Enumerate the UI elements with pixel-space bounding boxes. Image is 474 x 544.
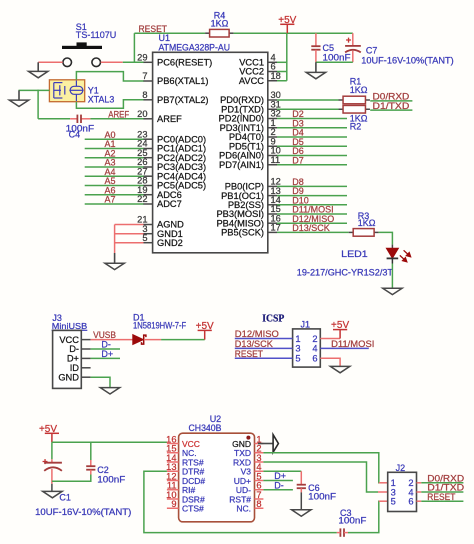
- svg-text:1KΩ: 1KΩ: [211, 19, 229, 29]
- U1 pin 32 PD2(IND0): [268, 118, 277, 120]
- wire R3 to LED: [379, 232, 393, 244]
- J3 pin ID: [81, 367, 90, 369]
- svg-text:J2: J2: [396, 463, 406, 473]
- svg-text:PB7(XTAL2): PB7(XTAL2): [157, 95, 209, 105]
- connector J3 body: [53, 330, 82, 388]
- wire net D1/TXD (J2): [417, 491, 422, 493]
- resistor R4 body: [205, 32, 210, 34]
- svg-text:PD7(AIN1): PD7(AIN1): [219, 160, 264, 170]
- svg-text:CTS#: CTS#: [182, 504, 204, 514]
- svg-text:100nF: 100nF: [308, 491, 337, 501]
- U2 pin 11 RI#: [167, 489, 179, 491]
- wire net D4: [277, 136, 347, 138]
- U1 pin 16 PB4(MISO): [268, 222, 277, 224]
- wire RESET to R4: [134, 32, 205, 34]
- U1 pin 5 GND2: [143, 242, 153, 244]
- wire net D3: [277, 127, 347, 129]
- wire GND bus GND2: [115, 242, 144, 244]
- U2 pin 9 CTS#: [167, 507, 179, 509]
- U1 pin 10 PD6(AIN0): [268, 155, 277, 157]
- wire analog net A7: [85, 203, 144, 205]
- J3 pin D+: [81, 357, 90, 359]
- svg-text:MiniUSB: MiniUSB: [52, 321, 88, 331]
- svg-text:+: +: [42, 456, 48, 467]
- wire net RESET to J1: [235, 357, 293, 359]
- U2 pin 7 RST#: [255, 498, 264, 500]
- wire GND bus GND1: [115, 233, 144, 235]
- ground pin U1 GND: [114, 253, 116, 263]
- svg-text:PB6(XTAL1): PB6(XTAL1): [157, 76, 209, 86]
- ground G5 (LED1): [383, 288, 402, 294]
- svg-text:17: 17: [271, 223, 281, 233]
- U2 pin 5 UD+: [255, 480, 264, 482]
- wire C5/C7 ground link: [316, 61, 353, 63]
- wire AREF branch vertical: [37, 90, 39, 119]
- wire net D12/MISO: [277, 222, 347, 224]
- wire net D5: [277, 145, 347, 147]
- svg-text:D-: D-: [274, 481, 284, 491]
- wire net D7: [277, 164, 347, 166]
- U1 pin 17 PB5(SCK): [268, 231, 277, 233]
- capacitor C3 plates: [339, 528, 341, 536]
- U1 pin 15 PB3(MOSI): [268, 213, 277, 215]
- wire GND bus vertical: [114, 225, 116, 254]
- wire net RESET (J2): [417, 500, 422, 502]
- wire net D0/RXD (J2): [417, 482, 422, 484]
- svg-text:PC6(RESET): PC6(RESET): [157, 58, 212, 68]
- wire PD0 to R1: [277, 99, 339, 101]
- svg-text:100nF: 100nF: [338, 515, 367, 525]
- wire U2 V3 to C6: [263, 470, 301, 472]
- J3 pin D-: [81, 348, 90, 350]
- pushbutton S1 right contact: [92, 58, 101, 67]
- svg-text:RESET: RESET: [427, 492, 456, 502]
- svg-text:VUSB: VUSB: [93, 330, 116, 340]
- svg-text:C4: C4: [69, 130, 81, 140]
- svg-text:ATMEGA328P-AU: ATMEGA328P-AU: [159, 42, 231, 52]
- pushbutton S1 actuator bar: [62, 46, 102, 49]
- connector J2 body: [388, 472, 417, 511]
- svg-text:6: 6: [312, 354, 317, 364]
- U1 pin 31 PD1(TXD): [268, 108, 277, 110]
- wire PD1 to R2: [277, 108, 339, 110]
- svg-text:J1: J1: [301, 319, 311, 329]
- svg-text:10UF-16V-10%(TANT): 10UF-16V-10%(TANT): [361, 56, 453, 66]
- ground pin crystal: [18, 90, 20, 100]
- ground pin under S1: [37, 62, 39, 71]
- U1 pin 30 PD0(RXD): [268, 99, 277, 101]
- svg-text:D12/MISO: D12/MISO: [235, 329, 279, 339]
- wire GND bus AGND: [115, 224, 144, 226]
- U1 pin 24 PC1(ADC1): [143, 148, 153, 150]
- svg-text:GND2: GND2: [157, 238, 183, 248]
- wire analog net A5: [85, 184, 144, 186]
- wire analog net A6: [85, 194, 144, 196]
- U2 GND net port arrow: [258, 443, 273, 445]
- U1 pin 13 PB1(OC1): [268, 195, 277, 197]
- svg-text:7: 7: [142, 71, 147, 81]
- S1 right pin wire: [101, 61, 123, 63]
- crystal Y1 glyph: [54, 81, 84, 102]
- C3 pins: [337, 532, 341, 534]
- wire net D- from J3: [91, 348, 120, 350]
- U2 pin 3 RXD: [255, 461, 264, 463]
- wire VCC drop to U1 power pins: [286, 33, 288, 81]
- svg-text:1KΩ: 1KΩ: [350, 85, 368, 95]
- U1 pin 14 PB2(SS): [268, 204, 277, 206]
- svg-text:PB5(SCK): PB5(SCK): [221, 228, 264, 238]
- U2 pin 16 VCC: [167, 443, 179, 445]
- wire J1 pin2 to +5V: [320, 338, 340, 340]
- U1 pin 4 VCC1: [268, 61, 277, 63]
- svg-text:AREF: AREF: [108, 110, 129, 120]
- svg-text:10UF-16V-10%(TANT): 10UF-16V-10%(TANT): [35, 507, 131, 517]
- J3 pin VCC: [81, 339, 90, 341]
- wire C2 bottom to C1: [90, 470, 92, 475]
- svg-text:C1: C1: [59, 493, 71, 503]
- U1 pin 22 ADC7: [143, 203, 153, 205]
- wire J1 pin6 to ground: [320, 358, 340, 366]
- svg-text:D13/SCK: D13/SCK: [292, 223, 330, 233]
- svg-text:22: 22: [137, 194, 147, 204]
- wire net D- (U2): [263, 489, 293, 491]
- U1 pin 12 PB0(ICP): [268, 185, 277, 187]
- wire crystal bottom loop to XTAL2: [76, 100, 143, 109]
- svg-text:RESET: RESET: [235, 349, 264, 359]
- U1 pin 27 PC4(ADC4): [143, 175, 153, 177]
- wire net D12/MISO to J1: [235, 338, 293, 340]
- wire net D9: [277, 195, 347, 197]
- U2 pin 2 TXD: [255, 452, 264, 454]
- svg-text:5: 5: [391, 497, 396, 507]
- U1 pin 2 PD4(T0): [268, 136, 277, 138]
- svg-text:CH340B: CH340B: [189, 423, 222, 433]
- svg-text:AVCC: AVCC: [239, 76, 264, 86]
- U2 pin 4 V3: [255, 470, 264, 472]
- svg-text:D7: D7: [292, 155, 304, 165]
- svg-text:11: 11: [271, 155, 281, 165]
- J2 left pin stubs: [379, 482, 388, 484]
- U1 pin 6 VCC2: [268, 71, 277, 73]
- svg-text:20: 20: [137, 109, 147, 119]
- capacitor C6 plates: [297, 484, 306, 486]
- LED1 light arrows: [400, 250, 411, 261]
- ground pin C5: [315, 62, 317, 72]
- wire +5V to U2 VCC: [52, 441, 167, 443]
- U2 pin 6 UD-: [255, 489, 264, 491]
- LED1 cathode pin and wire to ground: [391, 258, 393, 263]
- wire analog net A3: [85, 166, 144, 168]
- U1 pin 11 PD7(AIN1): [268, 164, 277, 166]
- wire net D8: [277, 185, 347, 187]
- wire C5 top stub: [315, 33, 317, 46]
- svg-text:19-217/GHC-YR1S2/3T: 19-217/GHC-YR1S2/3T: [297, 267, 394, 277]
- LED1 diode triangle: [386, 248, 398, 258]
- U2 pin 13 DTR#: [167, 470, 179, 472]
- U1 pin 29 PC6(RESET): [143, 61, 153, 63]
- wire net D11/MOSI: [277, 213, 347, 215]
- U2 pin 14 RTS#: [167, 461, 179, 463]
- U1 pin 1 PD3(INT1): [268, 127, 277, 129]
- wire net D0/RXD: [370, 100, 412, 102]
- svg-text:29: 29: [137, 53, 147, 63]
- wire analog net A0: [85, 138, 144, 140]
- U2 pin 1 GND: [255, 443, 264, 445]
- U1 pin 7 PB6(XTAL1): [143, 80, 153, 82]
- svg-text:ADC7: ADC7: [157, 199, 182, 209]
- wire C6 bottom to ground: [300, 488, 302, 492]
- wire net D11/MOSI from J1 pin4: [320, 347, 369, 349]
- ground G8 (C1): [43, 491, 62, 497]
- svg-text:8: 8: [142, 90, 147, 100]
- pushbutton S1 left contact: [63, 58, 72, 67]
- capacitor C4 pins: [70, 118, 77, 120]
- U1 pin 20 AREF: [143, 118, 153, 120]
- wire +5V rail top: [234, 32, 353, 34]
- wire net D10: [277, 204, 347, 206]
- resistor R3 body: [349, 231, 354, 233]
- svg-text:2: 2: [312, 334, 317, 344]
- svg-text:TS-1107U: TS-1107U: [76, 30, 117, 40]
- wire net D1/TXD: [370, 109, 412, 111]
- U1 pin 26 PC3(ADC3): [143, 166, 153, 168]
- svg-text:LED1: LED1: [341, 249, 368, 259]
- U1 pin 3 GND1: [143, 233, 153, 235]
- LED1 anode pin: [391, 245, 393, 249]
- wire net D6: [277, 155, 347, 157]
- wire U2 RXD to J2 pin3: [263, 462, 378, 492]
- svg-text:C7: C7: [366, 45, 378, 55]
- U1 pin 21 AGND: [143, 224, 153, 226]
- ground G3 (U1): [105, 263, 124, 269]
- IC U1 ATMEGA328P-AU body: [153, 52, 268, 253]
- wire D1 cathode to +5V: [144, 339, 161, 341]
- svg-text:D1/TXD: D1/TXD: [373, 101, 410, 111]
- crystal Y1 XTAL3 body: [49, 80, 84, 102]
- svg-text:8: 8: [256, 499, 261, 509]
- wire crystal top loop to XTAL1: [76, 72, 143, 81]
- svg-text:3: 3: [295, 344, 300, 354]
- wire net D13/SCK to R3: [277, 231, 349, 233]
- svg-text:D11/MOSI: D11/MOSI: [331, 339, 374, 349]
- svg-text:18: 18: [271, 71, 281, 81]
- svg-text:GND: GND: [58, 372, 79, 382]
- U1 pin 25 PC2(ADC2): [143, 157, 153, 159]
- ground G6 (J3): [100, 388, 119, 394]
- wire RESET vertical: [133, 33, 135, 63]
- U2 pin1 marker dot: [246, 436, 250, 440]
- wire net D13/SCK to J1: [235, 347, 293, 349]
- wire AREF left segment: [38, 118, 70, 120]
- wire U2 TXD to J2 pin1: [263, 453, 379, 483]
- svg-text:AREF: AREF: [157, 114, 182, 124]
- wire VUSB: [91, 339, 133, 341]
- wire J3 GND to ground: [91, 377, 110, 387]
- IC U2 CH340B body: [179, 433, 255, 522]
- wire U2 DTR# to C3: [144, 471, 337, 532]
- wire analog net A1: [85, 147, 144, 149]
- capacitor C7 polarized: [352, 33, 354, 46]
- U1 pin 28 PC5(ADC5): [143, 185, 153, 187]
- wire C3 to J2 pin5: [348, 501, 380, 532]
- svg-text:100nF: 100nF: [97, 474, 126, 484]
- svg-text:1N5819HW-7-F: 1N5819HW-7-F: [133, 321, 187, 331]
- wire C2 top stub: [90, 442, 92, 460]
- svg-text:R2: R2: [350, 122, 362, 132]
- svg-text:1KΩ: 1KΩ: [358, 218, 376, 228]
- svg-text:D13/SCK: D13/SCK: [235, 339, 273, 349]
- wire analog net A4: [85, 175, 144, 177]
- wire RESET net to U1 pin 29: [123, 61, 144, 63]
- U2 pin 12 DCD#: [167, 480, 179, 482]
- wire net D2: [277, 118, 347, 120]
- svg-text:D+: D+: [101, 349, 113, 359]
- capacitor C5 plates: [311, 45, 320, 47]
- wire C5 bottom: [315, 50, 317, 62]
- wire crystal shield to ground: [19, 89, 50, 91]
- svg-text:XTAL3: XTAL3: [88, 94, 115, 104]
- resistor R2 body: [339, 108, 344, 110]
- svg-text:100nF: 100nF: [323, 53, 352, 63]
- S1 left pin wire to ground: [38, 61, 63, 63]
- U2 pin 10 DSR#: [167, 498, 179, 500]
- capacitor C2 plates: [86, 465, 95, 467]
- wire net D+ (U2): [263, 480, 293, 482]
- diode D1 schottky cathode bar: [142, 335, 146, 344]
- ground G9 (C6): [292, 510, 311, 516]
- svg-text:9: 9: [171, 499, 176, 509]
- svg-text:1: 1: [295, 334, 300, 344]
- U2 pin 8 NC.: [255, 507, 264, 509]
- U2 pin 15 NC.: [167, 452, 179, 454]
- svg-text:5: 5: [295, 354, 300, 364]
- capacitor C4 plates: [76, 115, 78, 123]
- J3 pin GND: [81, 376, 90, 378]
- U1 pin 19 ADC6: [143, 194, 153, 196]
- U1 pin 23 PC0(ADC0): [143, 138, 153, 140]
- wire analog net A2: [85, 157, 144, 159]
- svg-text:A7: A7: [104, 195, 115, 205]
- ground G7 (J1): [330, 366, 349, 372]
- svg-text:+: +: [346, 35, 352, 46]
- LED1 cathode bar: [387, 257, 399, 259]
- U1 pin 9 PD5(T1): [268, 145, 277, 147]
- diode D1 1N5819 triangle: [133, 335, 144, 345]
- U1 pin 18 AVCC: [268, 80, 277, 82]
- U1 pin 8 PB7(XTAL2): [143, 99, 153, 101]
- svg-text:NC.: NC.: [236, 504, 251, 514]
- connector J1 body: [293, 329, 321, 367]
- resistor R1 body: [339, 99, 344, 101]
- svg-text:6: 6: [408, 497, 413, 507]
- svg-text:ICSP: ICSP: [262, 314, 284, 325]
- svg-text:4: 4: [312, 344, 317, 354]
- ground G2 (crystal): [9, 100, 28, 106]
- capacitor C1 polarized: [51, 442, 53, 459]
- ground G4 (C5/C7): [306, 72, 325, 78]
- wire AREF right segment to U1 pin 20: [90, 118, 143, 120]
- wire net D+ from J3: [91, 357, 120, 359]
- ground G1 (S1): [29, 71, 48, 77]
